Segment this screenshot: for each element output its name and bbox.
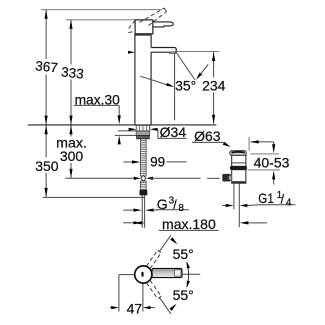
svg-text:40-53: 40-53 [254,155,290,171]
svg-text:350: 350 [35,158,59,174]
svg-text:max.30: max.30 [75,93,121,108]
svg-text:55°: 55° [173,287,194,303]
svg-text:max.180: max.180 [162,216,216,232]
svg-text:333: 333 [60,64,84,81]
svg-text:4: 4 [286,198,292,209]
svg-text:55°: 55° [173,246,194,262]
svg-text:35°: 35° [175,78,196,94]
svg-text:47: 47 [127,300,143,316]
svg-text:/: / [173,198,177,212]
svg-text:234: 234 [202,77,226,93]
svg-text:367: 367 [35,58,59,75]
svg-text:G1: G1 [258,190,274,206]
svg-text:300: 300 [60,148,84,164]
svg-text:G: G [157,196,168,212]
svg-text:/: / [281,192,285,206]
svg-text:Ø34: Ø34 [160,124,187,140]
svg-text:Ø63: Ø63 [194,128,221,144]
svg-text:8: 8 [178,203,184,214]
svg-text:99: 99 [150,154,165,169]
